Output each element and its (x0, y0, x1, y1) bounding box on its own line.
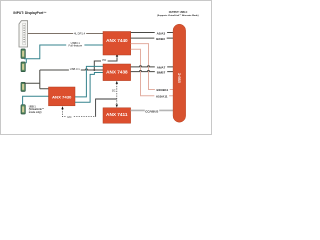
I2C branch to ANX7430 dashed (63, 109, 96, 117)
label I2C branch (66, 115, 73, 119)
svg-text:(Supports VirtualLink™ Alterna: (Supports VirtualLink™ Alternate Mode) (157, 14, 199, 17)
svg-text:PD: PD (102, 58, 106, 62)
label 4L DP1.4 (73, 31, 86, 35)
wire ANX7430 out2 to ANX7438 (75, 73, 103, 103)
junction (93, 69, 95, 71)
label A2/A3 (155, 31, 167, 35)
arrowhead into ANX7411 (116, 105, 118, 108)
label A6/A7 (155, 65, 167, 69)
USB connector P1 (21, 49, 25, 58)
DP connector J1 (19, 21, 28, 47)
USB-C plug connector (173, 24, 186, 122)
svg-text:A2/A3: A2/A3 (157, 31, 166, 35)
wire DP to ANX7440 4L DP1.4 (28, 33, 103, 35)
wire ANX7411 CC/VBUS to USB-C thick (131, 109, 174, 111)
USB connector P2 (21, 62, 25, 72)
wire I2C branch riser solid (96, 99, 117, 117)
svg-text:ANX 7438: ANX 7438 (106, 70, 128, 75)
svg-text:ANX 7430: ANX 7430 (52, 94, 72, 99)
svg-text:OUTPUT: USB-C: OUTPUT: USB-C (169, 11, 188, 14)
wire junction branch to ANX7440 bottom (94, 57, 117, 70)
svg-text:A6/A7: A6/A7 (157, 66, 166, 70)
chip ANX7411 U3 (103, 108, 131, 123)
border frame (1, 1, 212, 135)
I2C bus ANX7438 to ANX7411 dashed (116, 84, 118, 106)
label B2/B3 (154, 36, 166, 40)
wire ANX7430 out1 to ANX7438 (75, 66, 103, 97)
label USB 3.1 (69, 67, 81, 71)
arrowhead into ANX7438 (116, 81, 118, 84)
chip ANX7430 (49, 87, 76, 106)
svg-text:USB 3.1: USB 3.1 (70, 67, 81, 71)
arrowhead into ANX7440 (116, 53, 118, 57)
wire P4 to ANX7430 (23, 96, 49, 104)
svg-text:mode only): mode only) (29, 111, 42, 114)
label USB3.1 Full-feature (66, 41, 84, 47)
USB connector P4 VirtualLink (21, 105, 25, 114)
label A10/A11 (154, 94, 169, 98)
svg-text:Full-feature: Full-feature (69, 44, 83, 48)
wire P3 USB3.1 to ANX7438 and ANX7430 (24, 69, 103, 89)
svg-text:B10/B11: B10/B11 (156, 88, 168, 92)
wire ANX7440 to USB-C B2/B3 (131, 37, 173, 39)
wire ANX7438 to USB-C B6/B7 with hops (131, 70, 173, 71)
wire USB3.1 full-feature P1 P2 to ANX7440 (24, 45, 103, 59)
svg-text:I2C: I2C (67, 115, 71, 119)
label B10/B11 (155, 88, 170, 92)
wire ANX7440 to USB-C A2/A3 (131, 32, 173, 34)
label B6/B7 (155, 70, 167, 74)
svg-text:CC/VBUS: CC/VBUS (145, 110, 158, 114)
svg-text:4L DP1.4: 4L DP1.4 (74, 31, 86, 35)
svg-text:USB-C: USB-C (177, 72, 181, 83)
wire ANX7440 RX2 to USB-C A10/A11 pink (131, 49, 173, 96)
svg-text:ANX 7440: ANX 7440 (106, 38, 128, 43)
wire ANX7438 to USB-C A6/A7 with hops (131, 66, 173, 67)
chip ANX7438 U2 (103, 64, 131, 81)
svg-text:B2/B3: B2/B3 (156, 37, 165, 41)
svg-text:INPUT: DisplayPort™: INPUT: DisplayPort™ (13, 11, 46, 15)
svg-text:B6/B7: B6/B7 (157, 70, 166, 74)
wire ANX7440 RX1 to USB-C B10/B11 pink (131, 44, 173, 90)
wire stub P2 to net (25, 59, 27, 64)
svg-text:ANX 7411: ANX 7411 (106, 112, 128, 117)
label CC/VBUS (145, 109, 159, 113)
chip ANX7440 U1 (103, 32, 131, 56)
arrowhead into ANX7430 (61, 106, 63, 109)
label PD (101, 58, 108, 62)
svg-text:I2C: I2C (112, 89, 116, 92)
svg-text:A10/A11: A10/A11 (156, 95, 168, 99)
USB connector P3 (21, 82, 25, 91)
